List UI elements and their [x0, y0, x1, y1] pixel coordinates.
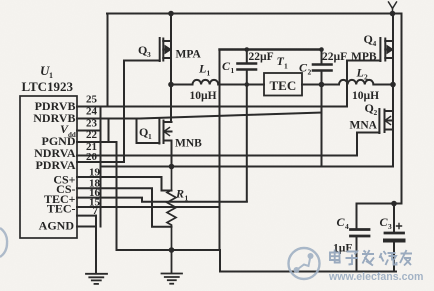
TEC box T1: [264, 73, 302, 96]
ground symbol G1: [86, 274, 107, 284]
node C2 top: [319, 47, 324, 52]
wire pin23 row: [77, 130, 101, 132]
node R1 bottom on ground bus: [169, 247, 175, 253]
wire NDRVB jog to MNB gate: [136, 119, 138, 143]
wire A-leg MNB drain: [170, 85, 173, 167]
pin numbers: [86, 94, 101, 217]
wire TEC+ node riser: [219, 50, 221, 85]
wire AGND drop to ground: [95, 216, 97, 273]
node C2 bottom junction: [319, 82, 325, 88]
ground symbol G2: [162, 250, 183, 284]
wire outer right rail down: [401, 14, 403, 204]
wire L1 right to TEC left: [218, 84, 264, 86]
wire B-leg mid: [392, 39, 394, 112]
wire pin24 NDRVB row: [77, 113, 322, 119]
resistor R1: [167, 167, 176, 251]
wire MNA gate drop to NDRVA: [356, 133, 358, 156]
node R1 top junction: [169, 164, 175, 170]
wire AGND row: [77, 226, 96, 228]
wire B-leg top (rail to MPB): [392, 14, 394, 39]
inductor L1 10uH: [171, 84, 193, 86]
wire bus drop right: [220, 250, 396, 272]
wire pin22 PGND row: [77, 141, 117, 143]
wire top supply rail: [107, 13, 402, 15]
power arrow Vdd: [389, 2, 397, 14]
node L1 junction: [168, 82, 174, 88]
capacitor C3 electrolytic: [385, 204, 404, 272]
watermark text (vector CJK strokes): [330, 250, 412, 266]
wire sense node to MNA source: [101, 166, 394, 168]
node C1 bottom crossing: [245, 82, 250, 87]
node C1 top: [245, 47, 250, 52]
watermark partial logo at left edge: [0, 228, 7, 257]
wire pin16 TEC+ row jog to C1 bottom: [77, 198, 247, 202]
wire Vdd rail bottom corner to caps: [357, 203, 402, 205]
wire pin7 row: [77, 215, 96, 217]
wire capacitor top bus: [220, 48, 322, 50]
wire top-left drop from rail to pin25 row: [107, 14, 109, 107]
wire ground bus: [117, 249, 221, 251]
inductor L2 10uH: [339, 80, 373, 85]
transistor Q2 (MNA): [357, 109, 393, 133]
wire MPB gate drop to pin25: [346, 61, 348, 107]
wire B-leg bottom to sense wire: [392, 111, 394, 167]
capacitor C2 22uF: [313, 50, 332, 167]
transistor Q4 (MPB): [347, 38, 393, 61]
wire pin18 CS- row with jog to R1 bottom: [77, 188, 172, 227]
wire pin21 NDRVA row: [77, 155, 357, 157]
wire A-leg upper: [170, 14, 172, 39]
wire pin19 CS+ row with jog to R1 top: [77, 177, 172, 191]
wire vertical bus V1: [100, 107, 102, 227]
wire A-leg mid (MPA drain to L1 node): [170, 39, 172, 85]
transistor Q3 (MPA): [124, 38, 171, 61]
wire jog V2 pins24-22: [108, 119, 110, 142]
capacitor C1 22uF: [238, 50, 257, 202]
capacitor C4 1uF: [351, 204, 370, 272]
transistor Q1 (MNB): [137, 120, 172, 144]
node C3 top junction: [391, 201, 397, 207]
wire pin15 TEC- row: [77, 206, 220, 208]
wire PDRVA riser to MPA gate: [123, 61, 125, 163]
node A-leg junction on rail: [168, 11, 174, 17]
IC U1 LTC1923 box: [20, 96, 77, 238]
wire pin25 PDRVB row: [77, 106, 347, 108]
wire PGND drop to bus: [116, 142, 118, 250]
wire pin20 PDRVA row: [77, 161, 124, 163]
wire TEC right to L2: [302, 84, 339, 86]
watermark logo circle: [289, 248, 320, 279]
wire vertical TEC+ sense column: [219, 85, 221, 251]
node L2 right junction: [390, 82, 396, 88]
